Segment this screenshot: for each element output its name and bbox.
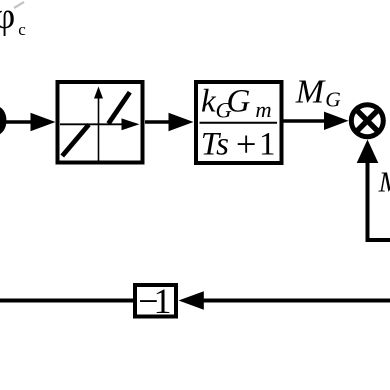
svg-text:1: 1 (259, 127, 276, 163)
svg-text:φ: φ (0, 0, 15, 37)
svg-text:M: M (295, 73, 326, 110)
svg-text:G: G (227, 83, 251, 119)
svg-text:G: G (325, 88, 341, 112)
svg-text:M: M (378, 167, 390, 199)
svg-text:m: m (255, 97, 271, 122)
svg-text:Ts: Ts (201, 127, 229, 163)
svg-text:+: + (236, 123, 257, 164)
svg-text:1: 1 (154, 281, 172, 321)
svg-text:c: c (18, 20, 26, 39)
